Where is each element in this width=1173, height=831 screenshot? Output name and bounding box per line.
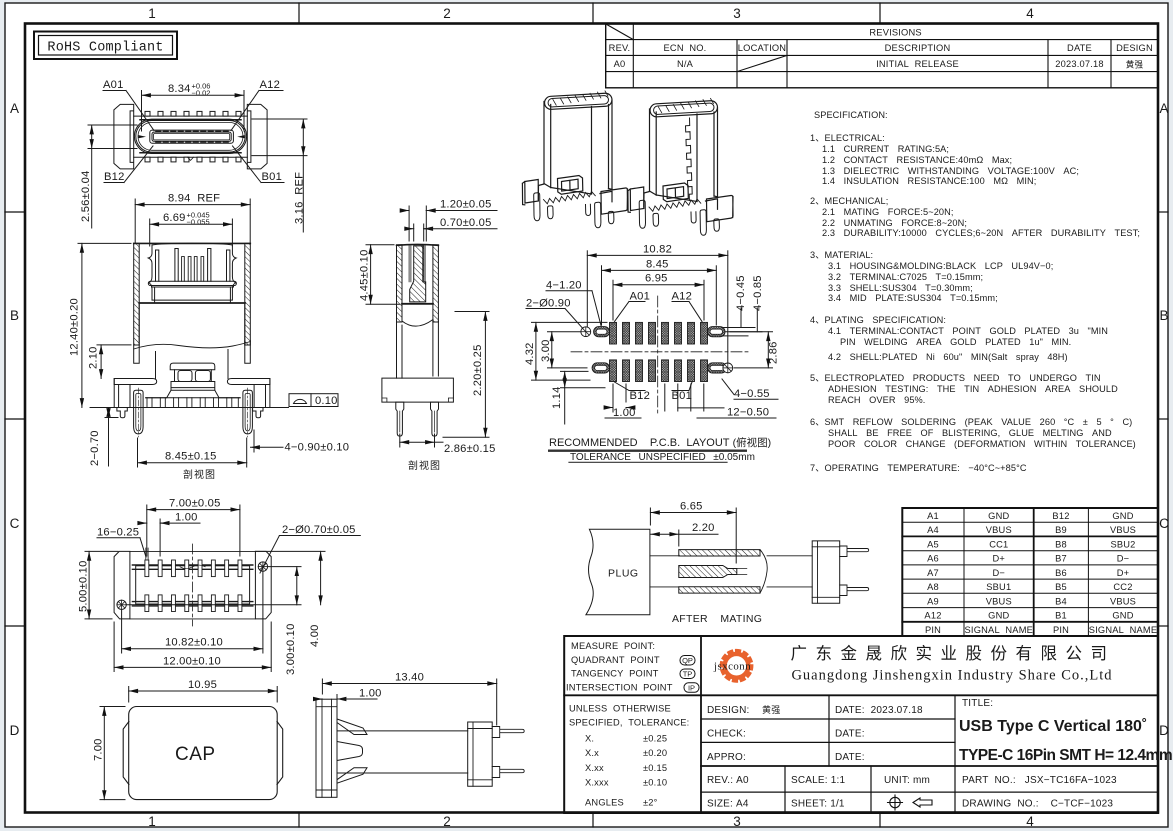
- svg-text:REACH OVER 95%.: REACH OVER 95%.: [828, 395, 925, 405]
- svg-text:GND: GND: [988, 511, 1009, 521]
- svg-text:B12: B12: [104, 171, 125, 183]
- pcb hole top-left: [581, 327, 591, 337]
- tongue tip lines: [737, 569, 747, 575]
- front inner body sides lower: [156, 350, 229, 379]
- iso1 latch bracket: [558, 176, 583, 195]
- front shell right wall hatched: [245, 243, 251, 345]
- svg-text:ANGLES: ANGLES: [585, 798, 624, 808]
- front wing left body: [114, 379, 130, 407]
- svg-text:1.20±0.05: 1.20±0.05: [440, 199, 492, 211]
- svg-text:−0.055: −0.055: [187, 218, 210, 227]
- top view mid-plate notch marks: [188, 157, 194, 160]
- top view tongue outer: [150, 130, 234, 143]
- svg-text:2: 2: [443, 6, 451, 21]
- top view shell inner stadium 3: [138, 122, 243, 150]
- dimension 16-0.25 bottom: [97, 538, 146, 557]
- label 2-Ø0.90 pcb: [526, 309, 583, 329]
- svg-text:4.1 TERMINAL:CONTACT POINT: 4.1 TERMINAL:CONTACT POINT GOLD PLATED 3…: [828, 326, 1108, 336]
- svg-text:PIN WELDING AREA GOLD PLAT: PIN WELDING AREA GOLD PLATED 1u" MIN.: [840, 337, 1071, 347]
- svg-text:INITIAL RELEASE: INITIAL RELEASE: [876, 59, 959, 69]
- svg-text:REVISIONS: REVISIONS: [869, 28, 921, 38]
- plug receptacle shell top hatched: [679, 550, 760, 556]
- svg-text:3.1 HOUSING&MOLDING:BLACK LC: 3.1 HOUSING&MOLDING:BLACK LCP UL94V−0;: [828, 261, 1053, 271]
- dimension 2.10: [97, 345, 131, 379]
- svg-text:广东金晟欣实业股份有限公司: 广东金晟欣实业股份有限公司: [791, 644, 1116, 663]
- svg-text:−0.02: −0.02: [192, 89, 211, 98]
- svg-text:D: D: [1159, 723, 1169, 738]
- top view tongue mid: [152, 132, 231, 141]
- svg-text:ECN NO.: ECN NO.: [664, 43, 707, 53]
- dimension 10.82 pcb: [587, 251, 728, 362]
- svg-text:PIN: PIN: [1053, 625, 1069, 635]
- design/check/appro: [707, 698, 1117, 810]
- svg-text:Guangdong Jinshengxin Industry: Guangdong Jinshengxin Industry Share Co.…: [791, 668, 1112, 684]
- svg-text:B7: B7: [1055, 554, 1067, 564]
- dimension 6.65 am: [650, 508, 736, 563]
- cap side fin 3: [337, 768, 367, 784]
- svg-text:1.1 CURRENT RATING:5A;: 1.1 CURRENT RATING:5A;: [822, 144, 949, 154]
- shell to connector lines: [767, 556, 812, 587]
- svg-text:1.00: 1.00: [359, 688, 382, 700]
- flatness callout box: [289, 394, 338, 407]
- svg-text:±0.25: ±0.25: [643, 734, 667, 744]
- svg-text:REV.: REV.: [609, 43, 631, 53]
- dimension 4.45 section: [366, 245, 400, 305]
- dimension 8.94 REF: [135, 199, 250, 243]
- top view rim line bottom: [140, 152, 241, 154]
- svg-text:DESIGN:: DESIGN:: [707, 705, 750, 716]
- svg-text:C: C: [1159, 516, 1169, 531]
- svg-text:0.10: 0.10: [315, 395, 338, 407]
- svg-text:RoHS Compliant: RoHS Compliant: [47, 41, 163, 56]
- section left wall hatched: [397, 245, 403, 322]
- svg-text:4、PLATING SPECIFICATION:: 4、PLATING SPECIFICATION:: [810, 315, 946, 325]
- svg-text:USB Type C Vertical 180˚: USB Type C Vertical 180˚: [959, 718, 1147, 735]
- bottom right wing: [255, 551, 271, 619]
- svg-text:3.4 MID PLATE:SUS304 T=0.15: 3.4 MID PLATE:SUS304 T=0.15mm;: [828, 293, 998, 303]
- section leg right: [431, 402, 439, 436]
- front finger thin 3: [194, 257, 197, 282]
- front finger wide 4: [227, 250, 230, 281]
- svg-text:±0.10: ±0.10: [643, 778, 667, 788]
- pcb hole bottom-right: [723, 363, 733, 373]
- svg-text:A4: A4: [927, 525, 939, 535]
- svg-text:X.: X.: [585, 734, 594, 744]
- svg-text:SPECIFICATION:: SPECIFICATION:: [814, 110, 888, 120]
- svg-text:10.95: 10.95: [188, 679, 217, 691]
- front finger thin 1: [182, 257, 185, 282]
- svg-text:SCALE: 1:1: SCALE: 1:1: [791, 775, 845, 786]
- label B01 pcb: [672, 382, 692, 391]
- top view shell bottom edge line: [134, 156, 248, 158]
- iso view right (re-used): [628, 98, 733, 235]
- pcb pads row A: [610, 322, 708, 344]
- svg-text:2.56±0.04: 2.56±0.04: [80, 171, 92, 223]
- svg-text:CAP: CAP: [175, 744, 216, 765]
- pcb center line vertical: [657, 296, 659, 416]
- dimension 12.40: [78, 243, 131, 407]
- dimension 1.14 pcb: [561, 371, 606, 424]
- svg-text:13.40: 13.40: [395, 672, 424, 684]
- iso1 mid leg: [586, 204, 591, 215]
- svg-text:TP: TP: [683, 670, 693, 679]
- svg-text:12.40±0.20: 12.40±0.20: [69, 298, 81, 356]
- svg-text:4.32: 4.32: [524, 342, 536, 365]
- svg-text:4−1.20: 4−1.20: [546, 280, 582, 292]
- bottom hole left: [117, 600, 126, 609]
- svg-text:3.00: 3.00: [540, 339, 552, 362]
- dimension 8.34 top: [142, 91, 245, 132]
- dimension 4-0.45 / 4-0.85 pcb leaders: [722, 308, 762, 336]
- svg-text:±2°: ±2°: [643, 798, 658, 808]
- svg-text:3.2 TERMINAL:C7025 T=0.15mm;: 3.2 TERMINAL:C7025 T=0.15mm;: [828, 272, 983, 282]
- front shell top edge: [134, 242, 251, 244]
- svg-text:CHECK:: CHECK:: [707, 729, 746, 740]
- svg-text:±0.20: ±0.20: [643, 748, 667, 758]
- top view rim line top: [140, 119, 241, 121]
- section leg left pin: [399, 411, 401, 432]
- dimension 4-0.90: [251, 430, 284, 452]
- iso1 body edges: [544, 101, 612, 195]
- svg-text:SHALL BE FREE OF BLISTERIN: SHALL BE FREE OF BLISTERING, GLUE MELTIN…: [828, 428, 1112, 438]
- svg-text:DATE: 2023.07.18: DATE: 2023.07.18: [835, 705, 923, 716]
- front flange top line: [146, 397, 240, 399]
- front housing lower bar: [148, 281, 236, 285]
- svg-text:A9: A9: [927, 596, 939, 606]
- svg-text:B1: B1: [1055, 611, 1067, 621]
- svg-text:jsxconn: jsxconn: [713, 660, 751, 672]
- label A01: [103, 91, 154, 131]
- svg-text:A5: A5: [927, 540, 939, 550]
- svg-text:SIZE: A4: SIZE: A4: [707, 799, 749, 810]
- svg-text:4−0.90±0.10: 4−0.90±0.10: [285, 442, 350, 454]
- svg-text:B01: B01: [672, 390, 693, 402]
- iso1 flange front edge: [538, 184, 612, 202]
- svg-text:1、ELECTRICAL:: 1、ELECTRICAL:: [810, 133, 885, 143]
- section leg right pin: [434, 411, 436, 432]
- svg-text:6、SMT REFLOW SOLDERING (PEA: 6、SMT REFLOW SOLDERING (PEAK VALUE 260 °…: [810, 417, 1132, 427]
- pcb pads row B: [610, 360, 708, 382]
- svg-text:B: B: [10, 308, 19, 323]
- svg-text:DRAWING NO.: C−TCF−1023: DRAWING NO.: C−TCF−1023: [962, 799, 1113, 810]
- cap left tab: [123, 722, 129, 785]
- dimension 13.40 side: [322, 679, 496, 725]
- dimension 5.00 bottom: [85, 551, 118, 619]
- top view shell inner stadium 2: [136, 121, 245, 153]
- bottom body rect: [136, 566, 250, 604]
- svg-text:5、ELECTROPLATED PRODUCTS NEE: 5、ELECTROPLATED PRODUCTS NEED TO UNDERGO…: [810, 373, 1101, 383]
- label B12: [104, 146, 153, 183]
- svg-text:PIN: PIN: [925, 625, 941, 635]
- iso1 leg pin 1: [534, 193, 540, 221]
- svg-text:B9: B9: [1055, 525, 1067, 535]
- label A12: [231, 91, 283, 131]
- svg-text:A6: A6: [927, 554, 939, 564]
- svg-text:黄强: 黄强: [1126, 60, 1144, 70]
- svg-text:2.20±0.25: 2.20±0.25: [472, 345, 484, 397]
- side leg lower: [492, 767, 524, 778]
- svg-text:X.x: X.x: [585, 748, 599, 758]
- front body below wave: [134, 341, 251, 364]
- svg-text:16−0.25: 16−0.25: [97, 527, 139, 539]
- svg-text:1: 1: [148, 6, 156, 21]
- front pcb line: [90, 407, 289, 409]
- dimension 3.00 bottom: [126, 567, 301, 605]
- front body side lines: [139, 303, 245, 345]
- bottom rail bottom: [132, 602, 252, 606]
- svg-text:QUADRANT POINT: QUADRANT POINT: [571, 655, 660, 665]
- dimension 2.86 pcb: [730, 332, 773, 368]
- front finger wide 3: [208, 248, 211, 281]
- dimension 10.95 cap: [129, 687, 278, 703]
- section dome arc: [402, 320, 433, 327]
- dimension 12.00 bottom: [114, 622, 271, 672]
- iso1 leg pin 2: [548, 206, 554, 219]
- svg-text:8.34: 8.34: [168, 83, 191, 95]
- svg-text:1.00: 1.00: [175, 512, 198, 524]
- iso2 zipper seam: [686, 118, 693, 200]
- dimension 1.20 section: [401, 206, 497, 241]
- svg-text:DATE:: DATE:: [835, 729, 865, 740]
- svg-text:B5: B5: [1055, 582, 1067, 592]
- svg-text:1.3 DIELECTRIC WITHSTANDING: 1.3 DIELECTRIC WITHSTANDING VOLTAGE:100V…: [822, 166, 1079, 176]
- bottom rail top: [132, 565, 252, 569]
- svg-text:2−Ø0.70±0.05: 2−Ø0.70±0.05: [282, 524, 356, 536]
- bottom wave mark: [180, 565, 205, 569]
- svg-text:DESIGN: DESIGN: [1116, 43, 1153, 53]
- svg-text:3、MATERIAL:: 3、MATERIAL:: [810, 250, 873, 260]
- cap right tab: [277, 722, 283, 785]
- section right wall hatched: [433, 245, 439, 322]
- svg-text:剖视图: 剖视图: [408, 459, 441, 472]
- svg-text:SBU2: SBU2: [1110, 540, 1135, 550]
- iso1 top oval outer: [544, 91, 612, 110]
- company logo: [713, 651, 752, 682]
- svg-text:UNIT: mm: UNIT: mm: [884, 775, 930, 786]
- cap side fin 2: [337, 742, 363, 761]
- svg-text:4.00: 4.00: [309, 624, 321, 647]
- svg-text:DATE: DATE: [1067, 43, 1092, 53]
- svg-text:剖视图: 剖视图: [183, 468, 216, 481]
- svg-text:±0.15: ±0.15: [643, 763, 667, 773]
- svg-text:D−: D−: [1117, 554, 1130, 564]
- svg-text:2.1 MATING FORCE:5~20N;: 2.1 MATING FORCE:5~20N;: [822, 207, 954, 217]
- svg-text:4−0.85: 4−0.85: [752, 275, 764, 311]
- svg-text:D: D: [10, 723, 20, 738]
- svg-text:VBUS: VBUS: [986, 596, 1012, 606]
- svg-text:B6: B6: [1055, 568, 1067, 578]
- cap side shaft: [337, 731, 468, 773]
- am leg lower: [840, 585, 869, 596]
- svg-text:X.xx: X.xx: [585, 763, 604, 773]
- svg-text:IP: IP: [688, 683, 695, 692]
- svg-text:8.45: 8.45: [646, 258, 669, 270]
- iso1 leg pin 3: [595, 202, 601, 227]
- cap body: [129, 707, 278, 800]
- front finger thin 2: [188, 257, 191, 282]
- svg-text:GND: GND: [1112, 511, 1133, 521]
- dimension 12-0.50 pcb: [665, 384, 776, 418]
- dimension 2.20 am: [650, 530, 718, 546]
- top view shell top edge line: [134, 115, 248, 117]
- svg-text:N/A: N/A: [677, 59, 694, 69]
- svg-text:A12: A12: [260, 79, 281, 91]
- svg-text:B8: B8: [1055, 540, 1067, 550]
- svg-text:3: 3: [733, 814, 741, 829]
- svg-text:VBUS: VBUS: [1110, 596, 1136, 606]
- svg-text:A0: A0: [614, 59, 626, 69]
- label A01 pcb: [615, 302, 646, 322]
- label A12 pcb: [672, 302, 702, 322]
- dimension 8.45 bottom: [138, 438, 247, 467]
- bottom hole right: [258, 562, 267, 571]
- svg-text:ADHESION TESTING: THE TIN: ADHESION TESTING: THE TIN ADHESION AREA …: [828, 384, 1118, 394]
- svg-text:CC1: CC1: [989, 540, 1008, 550]
- svg-text:7.00: 7.00: [93, 738, 105, 761]
- svg-text:A7: A7: [927, 568, 939, 578]
- front finger wide 1: [156, 250, 159, 281]
- title block frame: [564, 636, 1158, 813]
- dimension 6.95 pcb: [613, 280, 704, 320]
- svg-text:POOR COLOR CHANGE (DEFORMAT: POOR COLOR CHANGE (DEFORMATION WITHIN TO…: [828, 439, 1136, 449]
- pin assignment table: [902, 508, 1158, 636]
- dimension 7.00 cap: [100, 707, 125, 800]
- svg-text:PART NO.: JSX−TC16FA−1023: PART NO.: JSX−TC16FA−1023: [962, 775, 1117, 786]
- dimension 1.00 side: [314, 695, 377, 718]
- top view tongue inner: [154, 134, 230, 140]
- svg-text:2: 2: [443, 814, 451, 829]
- svg-text:X.xxx: X.xxx: [585, 778, 609, 788]
- front teeth row: [147, 398, 238, 407]
- front mid plate line: [139, 302, 245, 304]
- side leg upper: [492, 727, 524, 738]
- bottom body top edge: [130, 551, 256, 619]
- svg-text:B01: B01: [262, 171, 283, 183]
- top view solder tabs lower: [145, 157, 241, 162]
- dimension 2-Ø0.70 bottom: [260, 536, 360, 574]
- svg-text:2−0.70: 2−0.70: [89, 430, 101, 466]
- front wing bar right: [227, 379, 270, 385]
- svg-text:4: 4: [1026, 6, 1034, 21]
- svg-text:4: 4: [1026, 814, 1034, 829]
- bottom teeth bottom row: [145, 595, 242, 612]
- svg-text:TYPE-C 16Pin SMT H= 12.4mm: TYPE-C 16Pin SMT H= 12.4mm: [959, 747, 1172, 764]
- svg-text:7、OPERATING TEMPERATURE: −40: 7、OPERATING TEMPERATURE: −40°C~+85°C: [810, 463, 1027, 473]
- svg-text:1.2 CONTACT RESISTANCE:40mΩ: 1.2 CONTACT RESISTANCE:40mΩ Max;: [822, 155, 1012, 165]
- svg-text:A12: A12: [672, 291, 693, 303]
- svg-text:6.69: 6.69: [163, 212, 186, 224]
- top view left wing: [114, 104, 134, 168]
- plug receptacle shell bottom hatched: [679, 587, 760, 593]
- dimension 7.00 bottom: [147, 505, 240, 556]
- label 4-1.20 pcb: [546, 291, 601, 326]
- am leg upper: [840, 546, 869, 557]
- svg-text:2023.07.18: 2023.07.18: [1055, 59, 1104, 69]
- svg-text:SIGNAL NAME: SIGNAL NAME: [965, 625, 1034, 635]
- top view right wing: [247, 104, 267, 168]
- svg-text:5.00±0.10: 5.00±0.10: [78, 561, 90, 613]
- iso1 solder teeth: [544, 192, 596, 204]
- dimension 6.69: [150, 219, 233, 246]
- pcb oval pad top-left: [594, 327, 610, 337]
- front wing right body: [254, 379, 270, 407]
- svg-text:SPECIFIED, TOLERANCE:: SPECIFIED, TOLERANCE:: [569, 718, 689, 728]
- dimension 2.56 left: [88, 125, 137, 228]
- svg-text:SBU1: SBU1: [986, 582, 1011, 592]
- svg-text:2.10: 2.10: [88, 346, 100, 369]
- svg-text:黄强: 黄强: [762, 704, 780, 715]
- front latch base block: [171, 382, 215, 391]
- dimension 2.86 section: [400, 434, 443, 447]
- svg-text:D+: D+: [993, 554, 1006, 564]
- svg-text:INTERSECTION POINT: INTERSECTION POINT: [566, 683, 673, 693]
- section flange: [382, 378, 454, 402]
- iso1 body bottom edge: [544, 184, 612, 190]
- svg-text:A01: A01: [103, 79, 124, 91]
- svg-text:TITLE:: TITLE:: [962, 698, 993, 709]
- front housing trapezoid block: [152, 286, 234, 303]
- section body sides lower: [397, 320, 439, 378]
- svg-text:UNLESS OTHERWISE: UNLESS OTHERWISE: [569, 704, 671, 714]
- svg-text:MEASURE POINT:: MEASURE POINT:: [571, 641, 655, 651]
- dimension 3.16 REF right: [252, 119, 307, 232]
- svg-text:LOCATION: LOCATION: [738, 43, 786, 53]
- top view shell outer stadium: [134, 119, 246, 153]
- bottom teeth top row: [145, 560, 242, 577]
- svg-text:B: B: [1159, 308, 1168, 323]
- bottom center line: [192, 544, 194, 626]
- svg-text:6.95: 6.95: [645, 273, 668, 285]
- svg-text:2−Ø0.90: 2−Ø0.90: [526, 297, 571, 309]
- specification text: [810, 110, 1140, 473]
- pcb center line horizontal: [571, 351, 748, 353]
- svg-text:CC2: CC2: [1113, 582, 1132, 592]
- svg-text:A: A: [10, 101, 19, 116]
- svg-text:A12: A12: [924, 611, 941, 621]
- svg-text:GND: GND: [988, 611, 1009, 621]
- front finger thin 4: [201, 257, 204, 282]
- dimension 2.20 section: [443, 312, 489, 438]
- svg-text:D−: D−: [993, 568, 1006, 578]
- shell right closure: [760, 550, 767, 594]
- am connector block: [812, 541, 840, 603]
- svg-text:A: A: [1159, 101, 1168, 116]
- svg-text:2、MECHANICAL;: 2、MECHANICAL;: [810, 196, 888, 206]
- iso1 left wing cube: [522, 180, 538, 205]
- svg-text:10.82: 10.82: [643, 243, 672, 255]
- svg-text:A01: A01: [630, 291, 651, 303]
- svg-text:B4: B4: [1055, 596, 1067, 606]
- svg-text:AFTER MATING: AFTER MATING: [672, 613, 762, 625]
- svg-text:8.45±0.15: 8.45±0.15: [165, 451, 217, 463]
- section slot lines: [409, 246, 425, 283]
- svg-text:RECOMMENDED P.C.B. LAYOUT: RECOMMENDED P.C.B. LAYOUT (俯视图): [549, 436, 771, 449]
- svg-text:TANGENCY POINT: TANGENCY POINT: [571, 669, 659, 679]
- section top edge: [397, 243, 439, 246]
- front shell leg right oval: [243, 390, 253, 434]
- front finger wide 2: [175, 248, 178, 281]
- projection symbol: [888, 795, 933, 810]
- front latch detail: [170, 363, 215, 370]
- svg-text:12.00±0.10: 12.00±0.10: [163, 655, 221, 667]
- svg-text:8.94 REF: 8.94 REF: [168, 193, 220, 205]
- svg-text:B12: B12: [630, 390, 651, 402]
- cap side fin 1: [337, 719, 367, 735]
- dimension 8.45 pcb: [602, 266, 717, 325]
- front wing pegs: [117, 408, 263, 418]
- svg-text:4−0.45: 4−0.45: [735, 275, 747, 311]
- svg-text:1: 1: [148, 814, 156, 829]
